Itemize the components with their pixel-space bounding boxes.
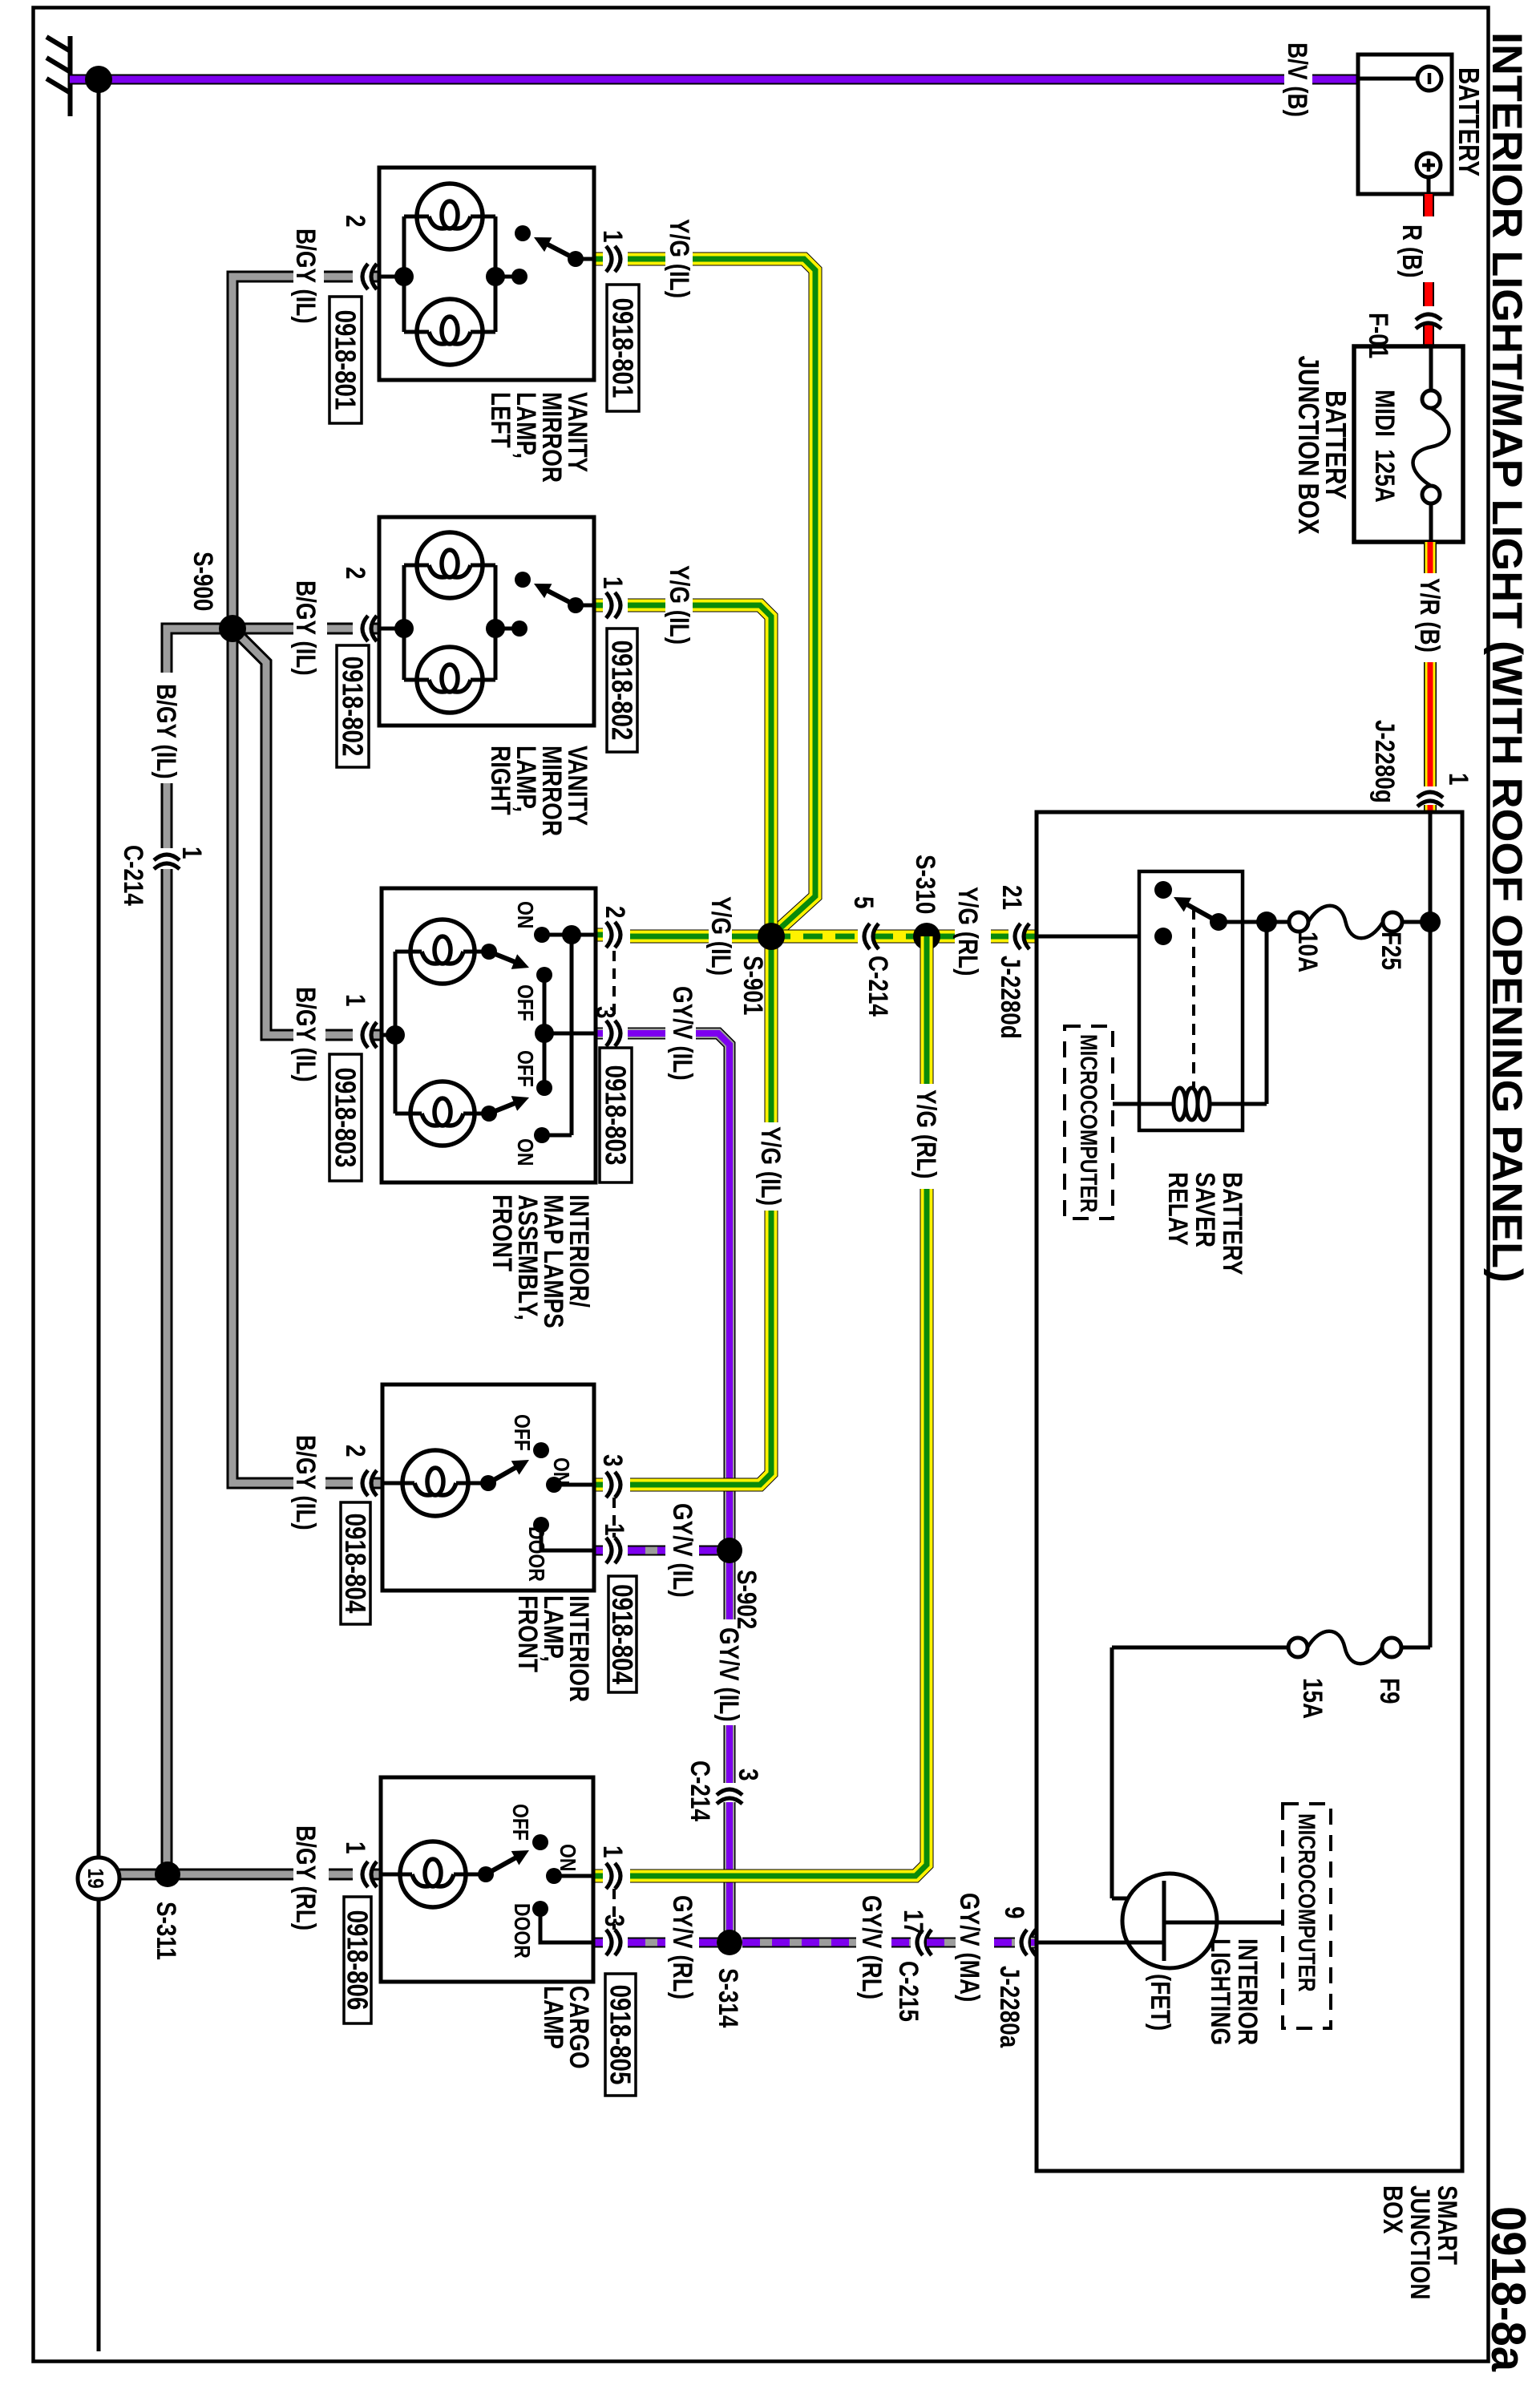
svg-text:5: 5 [848,896,879,909]
svg-text:B/GY (RL): B/GY (RL) [290,1825,321,1930]
svg-text:GY/V (IL): GY/V (IL) [713,1627,744,1722]
svg-text:B/GY (IL): B/GY (IL) [151,684,181,779]
svg-text:MIDI 125A: MIDI 125A [1369,390,1400,503]
svg-text:0918-803: 0918-803 [600,1065,632,1166]
svg-text:3: 3 [597,1454,628,1467]
svg-text:FRONT: FRONT [487,1195,517,1271]
svg-text:Y/G (RL): Y/G (RL) [911,1089,941,1178]
svg-text:C-214: C-214 [863,956,893,1017]
svg-text:C-214: C-214 [118,845,148,907]
svg-text:1: 1 [1443,773,1473,786]
svg-text:J-2280a: J-2280a [994,1966,1025,2048]
svg-text:OFF: OFF [507,1804,532,1841]
svg-text:B/GY (IL): B/GY (IL) [290,228,321,324]
svg-text:BOX: BOX [1377,2185,1408,2234]
svg-text:ON: ON [548,1457,573,1485]
svg-text:S-902: S-902 [731,1570,762,1629]
svg-text:15A: 15A [1297,1678,1328,1719]
svg-text:LEFT: LEFT [485,392,515,448]
svg-text:DOOR: DOOR [509,1903,534,1959]
svg-text:0918-805: 0918-805 [604,1985,637,2085]
svg-text:BATTERY: BATTERY [1453,67,1485,176]
svg-text:B/GY (IL): B/GY (IL) [290,1435,321,1530]
svg-text:0918-801: 0918-801 [607,298,639,398]
svg-text:INTERIOR: INTERIOR [1232,1938,1263,2045]
svg-text:17: 17 [898,1910,928,1934]
svg-text:21: 21 [996,885,1027,910]
svg-text:RIGHT: RIGHT [485,746,515,815]
svg-text:1: 1 [597,576,628,589]
svg-text:S-311: S-311 [151,1902,181,1960]
svg-text:RELAY: RELAY [1162,1172,1193,1246]
svg-text:1: 1 [597,1845,628,1858]
svg-text:GY/V (MA): GY/V (MA) [954,1893,984,2002]
svg-text:Y/G (IL): Y/G (IL) [664,565,694,645]
svg-text:F9: F9 [1374,1678,1405,1704]
svg-text:F-01: F-01 [1363,313,1393,358]
svg-text:ON: ON [555,1844,580,1871]
svg-text:FRONT: FRONT [512,1595,543,1672]
svg-text:C-214: C-214 [685,1760,715,1822]
svg-text:S-900: S-900 [188,552,218,611]
svg-text:B/GY (IL): B/GY (IL) [290,580,321,676]
svg-text:SMART: SMART [1432,2185,1462,2265]
svg-text:Y/R (B): Y/R (B) [1414,578,1445,653]
svg-text:(FET): (FET) [1145,1974,1175,2031]
svg-text:0918-804: 0918-804 [606,1584,638,1684]
svg-text:10A: 10A [1292,932,1323,972]
svg-text:0918-802: 0918-802 [337,657,369,757]
svg-text:OFF: OFF [512,1050,537,1087]
svg-text:C-215: C-215 [893,1961,924,2022]
svg-text:S-314: S-314 [713,1968,743,2028]
svg-text:1: 1 [340,1841,370,1854]
svg-text:2: 2 [600,906,630,919]
svg-text:0918-804: 0918-804 [339,1514,371,1614]
svg-text:INTERIOR LIGHT/MAP LIGHT (WITH: INTERIOR LIGHT/MAP LIGHT (WITH ROOF OPEN… [1483,32,1530,1283]
svg-text:ON: ON [512,1138,537,1166]
svg-text:3: 3 [733,1769,763,1781]
svg-text:B/GY (IL): B/GY (IL) [290,987,321,1082]
svg-text:LAMP: LAMP [538,1986,568,2049]
svg-text:Y/G (RL): Y/G (RL) [952,887,983,976]
svg-text:0918-802: 0918-802 [606,641,638,741]
svg-text:B/V (B): B/V (B) [1282,42,1312,117]
svg-text:0918-8a: 0918-8a [1481,2206,1535,2372]
svg-text:19: 19 [83,1868,107,1889]
svg-text:1: 1 [176,847,207,859]
svg-text:SAVER: SAVER [1190,1172,1220,1247]
svg-text:S-901: S-901 [738,956,768,1015]
svg-text:GY/V (RL): GY/V (RL) [667,1895,697,1999]
svg-text:DOOR: DOOR [523,1526,548,1582]
svg-text:GY/V (IL): GY/V (IL) [667,986,697,1081]
svg-text:F25: F25 [1376,932,1406,970]
svg-text:J-2280d: J-2280d [995,956,1025,1039]
svg-text:MICROCOMPUTER: MICROCOMPUTER [1293,1813,1320,1992]
svg-text:1: 1 [340,994,370,1007]
svg-text:Y/G (IL): Y/G (IL) [755,1126,786,1206]
svg-text:1: 1 [597,230,628,243]
svg-text:GY/V (RL): GY/V (RL) [856,1895,887,1999]
svg-text:9: 9 [999,1906,1029,1919]
svg-text:J-2280g: J-2280g [1369,720,1400,803]
svg-text:0918-801: 0918-801 [329,310,362,410]
svg-text:S-310: S-310 [910,855,940,914]
svg-text:2: 2 [340,215,370,228]
svg-text:MICROCOMPUTER: MICROCOMPUTER [1075,1034,1102,1213]
svg-text:JUNCTION: JUNCTION [1405,2185,1435,2299]
svg-text:0918-806: 0918-806 [342,1910,374,2011]
svg-text:LIGHTING: LIGHTING [1205,1938,1235,2045]
svg-text:Y/G (IL): Y/G (IL) [664,219,694,298]
svg-text:OFF: OFF [512,984,537,1021]
svg-text:OFF: OFF [509,1414,534,1451]
svg-text:2: 2 [340,567,370,580]
svg-text:BATTERY: BATTERY [1217,1172,1247,1275]
svg-text:0918-803: 0918-803 [329,1068,362,1168]
svg-text:JUNCTION BOX: JUNCTION BOX [1292,356,1324,535]
svg-text:Y/G (IL): Y/G (IL) [705,896,736,976]
svg-text:2: 2 [340,1445,370,1457]
svg-text:R (B): R (B) [1397,224,1427,278]
svg-text:ON: ON [512,901,537,928]
svg-text:GY/V (IL): GY/V (IL) [667,1503,697,1598]
